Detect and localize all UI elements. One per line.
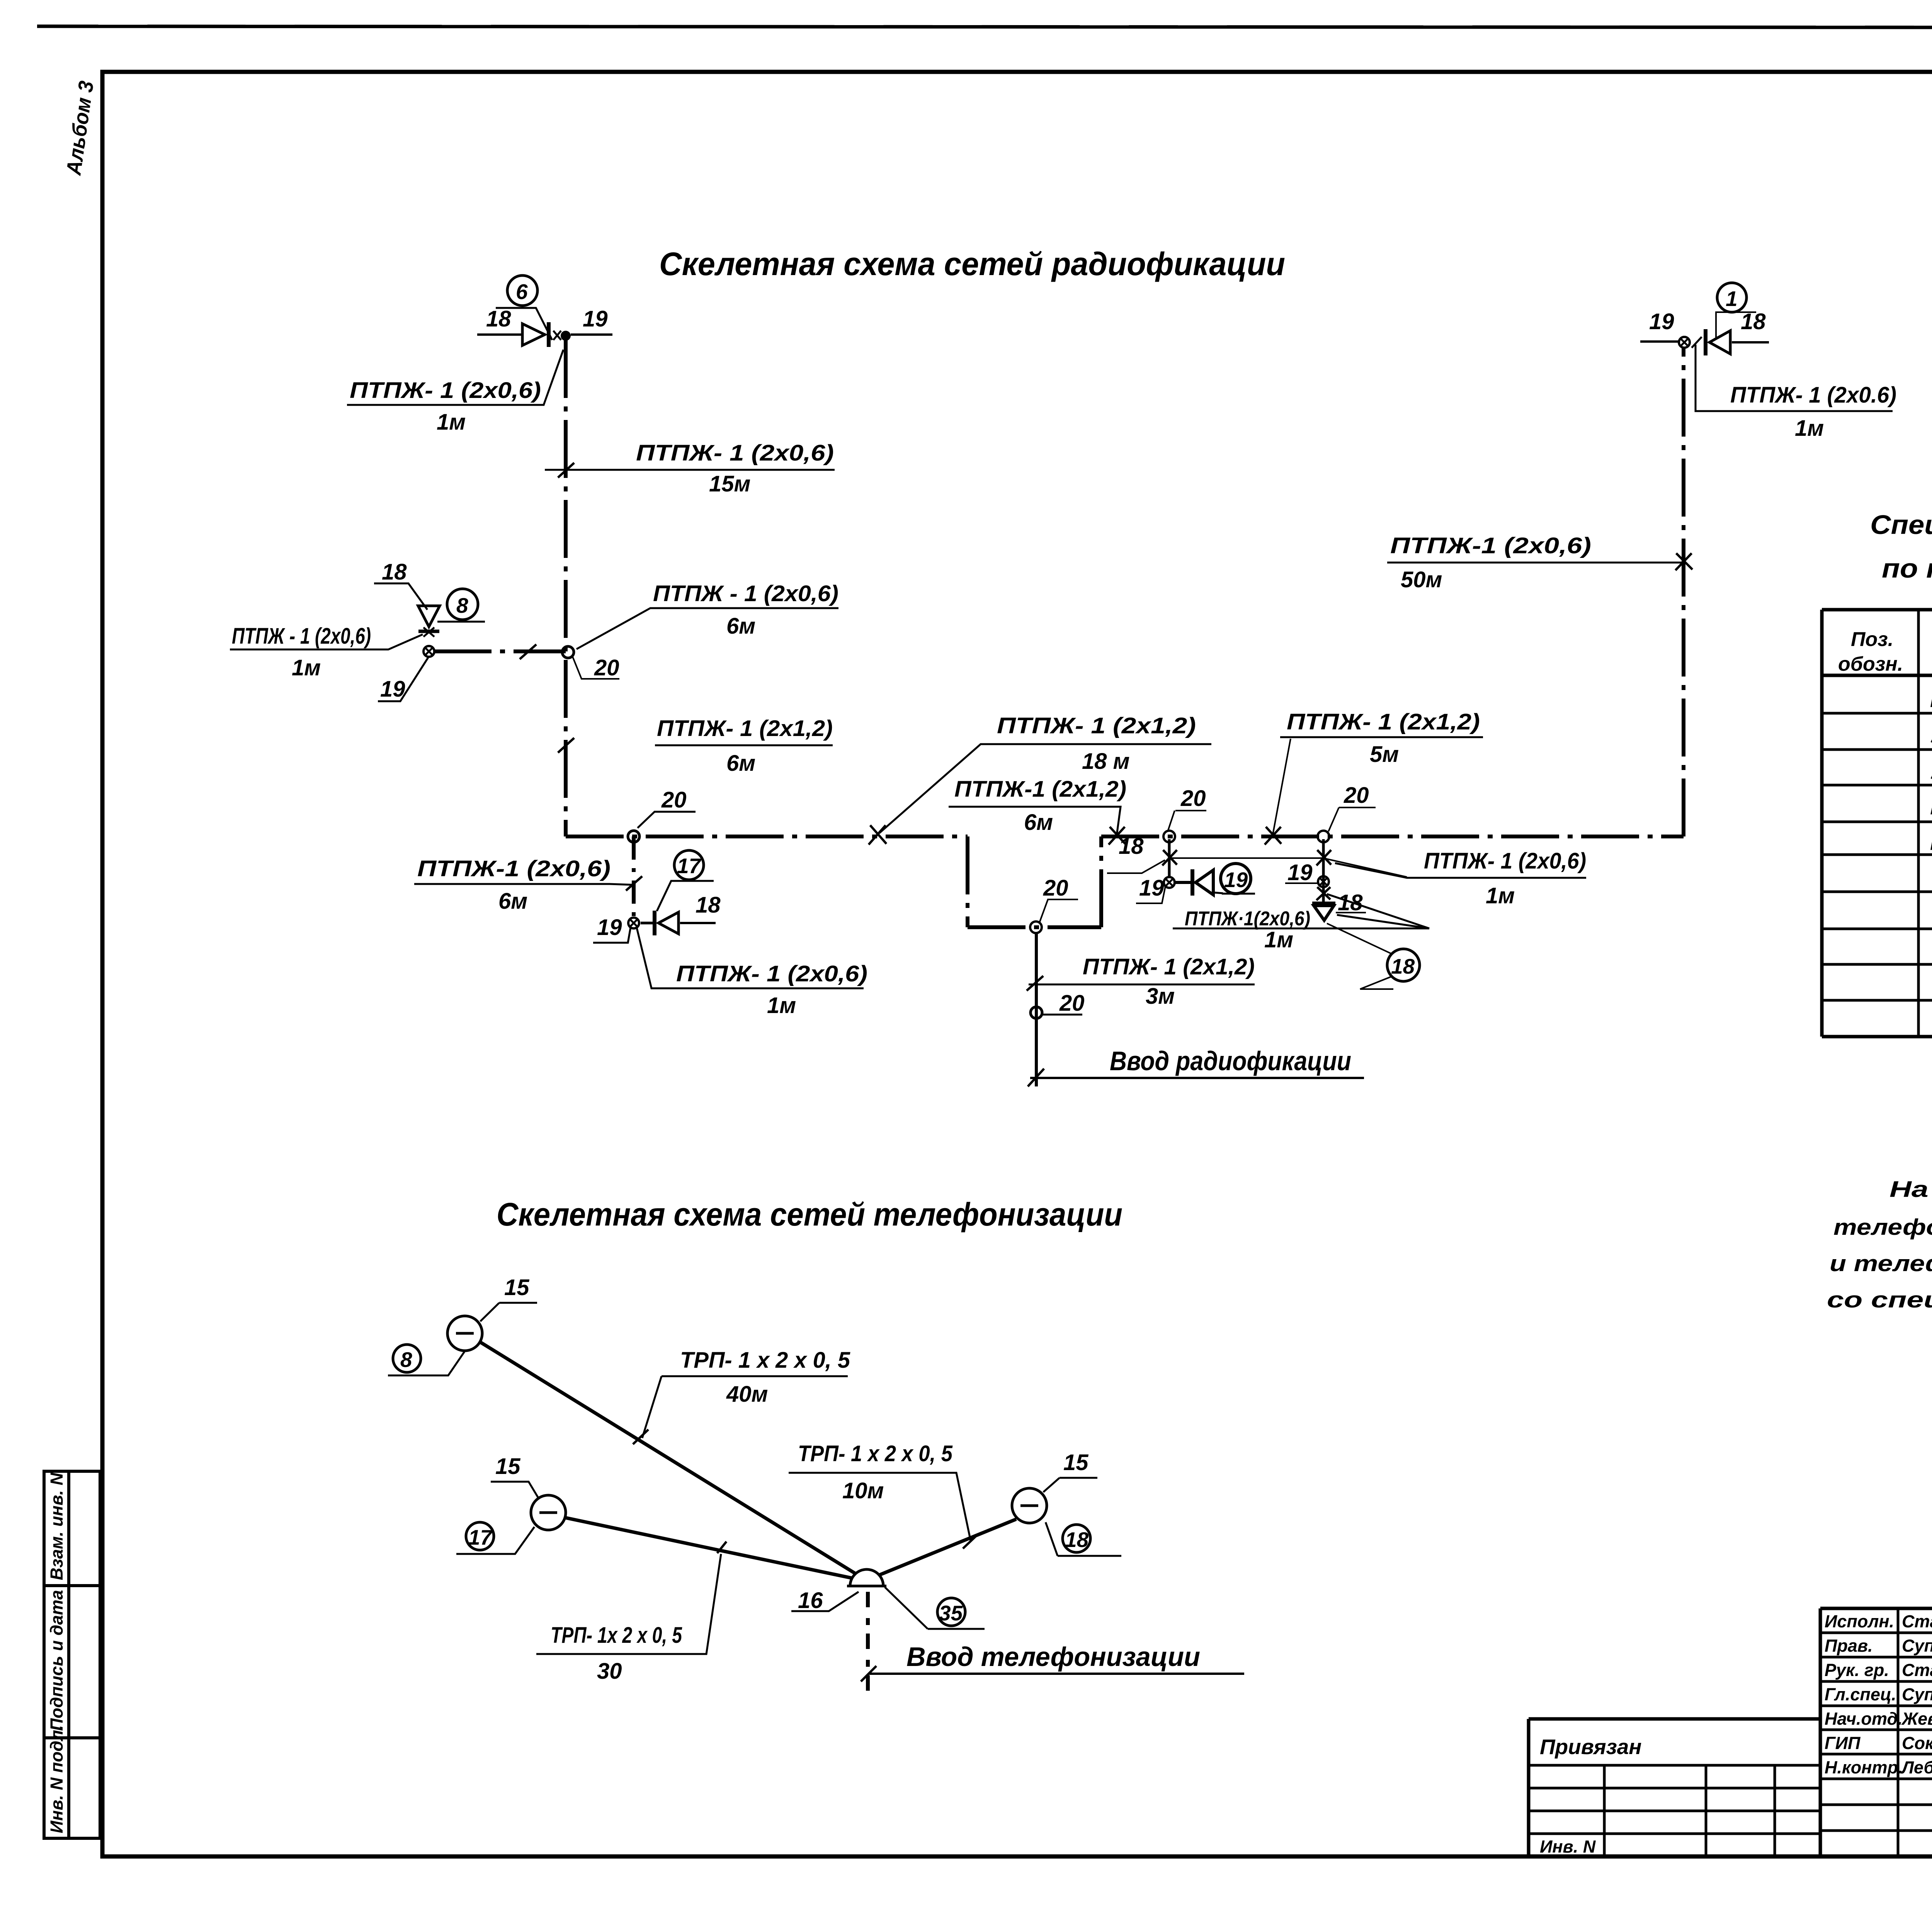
svg-text:8: 8 bbox=[456, 593, 468, 617]
junction 20 (sub-assembly 18) bbox=[1318, 783, 1376, 842]
svg-text:Прав.: Прав. bbox=[1825, 1636, 1873, 1656]
svg-text:6: 6 bbox=[516, 280, 528, 304]
tick on riser at 2x1,2 6м bbox=[558, 738, 574, 753]
svg-text:Инв. N подл.: Инв. N подл. bbox=[47, 1725, 66, 1833]
svg-text:Гл.спец.: Гл.спец. bbox=[1825, 1685, 1896, 1704]
svg-text:ПТПЖ-1 (2х0,6): ПТПЖ-1 (2х0,6) bbox=[417, 856, 611, 881]
wire: branch from node 8 bbox=[434, 649, 566, 653]
svg-text:Коробки универсальные: Коробки универсальные bbox=[1930, 687, 1932, 712]
spec row 3 bbox=[1930, 759, 1932, 785]
svg-text:ПТПЖ- 1 (2х1,2): ПТПЖ- 1 (2х1,2) bbox=[1083, 954, 1255, 979]
tick X right of junction bbox=[1692, 337, 1702, 348]
spec header Поз обозн bbox=[1838, 628, 1903, 675]
label 18 (sub 18) bbox=[1336, 890, 1366, 915]
junction circle-x node 1 bbox=[1679, 337, 1690, 348]
tick on riser at 15м bbox=[558, 463, 574, 478]
spec row 4 bbox=[1930, 794, 1932, 820]
svg-text:Провод ТРП- 1х2х0,5 ГОСТ 205: Провод ТРП- 1х2х0,5 ГОСТ 20575-75*Е bbox=[1930, 794, 1932, 819]
svg-text:ПТПЖ- 1 (2х0,6): ПТПЖ- 1 (2х0,6) bbox=[676, 961, 867, 986]
svg-text:Супрунова: Супрунова bbox=[1902, 1636, 1932, 1656]
position circle 18 (leadered) bbox=[1327, 923, 1420, 989]
svg-text:УК - 2Р: УК - 2Р bbox=[1930, 759, 1932, 784]
sheet top edge line bbox=[37, 26, 1932, 28]
signature rows text bbox=[1825, 1612, 1932, 1777]
svg-text:Подпись и дата: Подпись и дата bbox=[47, 1590, 66, 1731]
svg-text:Ввод телефонизации: Ввод телефонизации bbox=[906, 1642, 1200, 1672]
svg-text:1м: 1м bbox=[767, 993, 796, 1018]
svg-text:17: 17 bbox=[468, 1525, 493, 1549]
thin line 18 across bbox=[1169, 858, 1407, 877]
junction 20 (sub-assembly 19) bbox=[1163, 786, 1206, 842]
tick on branch node8 bbox=[520, 644, 536, 659]
spec row 2 bbox=[1930, 722, 1932, 749]
svg-text:Скелетная схема сетей телефони: Скелетная схема сетей телефонизации bbox=[497, 1196, 1122, 1232]
hub distribution box (half dome) bbox=[847, 1569, 886, 1586]
svg-text:ТРП- 1 х 2 х 0, 5: ТРП- 1 х 2 х 0, 5 bbox=[798, 1441, 953, 1466]
label 19 (node 17) bbox=[593, 915, 631, 943]
label 19 (sub 19) bbox=[1136, 875, 1165, 903]
position circle 8 bbox=[437, 589, 485, 622]
label ПТПЖ-1 (2x1,2) 3м bbox=[1029, 954, 1255, 1009]
label ПТПЖ-1 (2x1,2) 5м bbox=[1273, 709, 1483, 835]
svg-text:со спецификацией к плану: со спецификацией к плану - лист 13. bbox=[1827, 1287, 1932, 1312]
phone line B to hub bbox=[565, 1518, 855, 1579]
svg-text:18: 18 bbox=[1338, 890, 1363, 915]
label ПТПЖ-1 (2x1,2) 6м (center) bbox=[949, 777, 1126, 835]
loudspeaker node 8 (pointing down) bbox=[418, 606, 440, 637]
label ПТПЖ-1 (2x0,6) 1м (node 17) bbox=[637, 928, 867, 1018]
loudspeaker node 17 (pointing left) bbox=[641, 911, 716, 935]
junction 20 on U bottom bbox=[1030, 875, 1078, 933]
junction circle-x sub 18 bbox=[1318, 876, 1329, 887]
svg-text:15: 15 bbox=[1063, 1450, 1088, 1475]
loudspeaker sub 18 (pointing down) bbox=[1312, 903, 1335, 920]
svg-text:ПТПЖ- 1 (2х1,2): ПТПЖ- 1 (2х1,2) bbox=[1287, 709, 1480, 734]
position circle 35 (hub) bbox=[885, 1587, 985, 1629]
label 19 (node 8) bbox=[378, 658, 428, 702]
svg-text:6м: 6м bbox=[498, 889, 527, 914]
wire: telephone entrance drop (dashed) bbox=[866, 1592, 870, 1694]
svg-text:Исполн.: Исполн. bbox=[1825, 1612, 1894, 1631]
svg-text:3м: 3м bbox=[1146, 984, 1175, 1009]
svg-text:30: 30 bbox=[597, 1659, 622, 1684]
label ПТПЖ-1(2x0,6) 1м (sub pair) bbox=[1173, 894, 1429, 952]
svg-text:20: 20 bbox=[661, 787, 687, 813]
svg-text:8: 8 bbox=[400, 1348, 412, 1372]
label ПТПЖ-1 (2x0,6) 50м bbox=[1387, 533, 1682, 592]
svg-text:17: 17 bbox=[677, 854, 702, 878]
telephone entrance underline bbox=[869, 1673, 1244, 1675]
svg-text:ПТПЖ- 1 (2х0,6): ПТПЖ- 1 (2х0,6) bbox=[350, 378, 541, 403]
wire drop sub-assembly 19 bbox=[1168, 839, 1171, 878]
svg-text:1м: 1м bbox=[1264, 927, 1293, 952]
wire: horizontal trunk left segment bbox=[566, 835, 968, 838]
svg-text:19: 19 bbox=[597, 915, 622, 940]
svg-text:20: 20 bbox=[594, 655, 619, 680]
svg-text:Нач.отд.: Нач.отд. bbox=[1825, 1709, 1903, 1729]
label ПТПЖ-1 (2x0,6) 6м (node 17) bbox=[414, 856, 632, 914]
svg-text:Привязан: Привязан bbox=[1540, 1735, 1642, 1759]
svg-text:1м: 1м bbox=[1795, 416, 1824, 441]
stamp signature table bbox=[1820, 1608, 1932, 1856]
label 18 (sub 19) bbox=[1107, 834, 1165, 873]
svg-text:18: 18 bbox=[1741, 309, 1766, 334]
position circle 17 bbox=[657, 850, 714, 911]
wire drop to node 17 bbox=[632, 836, 636, 923]
tick on trunk (5м leader) bbox=[1265, 827, 1281, 845]
label 18 (node 8) bbox=[374, 559, 427, 610]
position circle 1 bbox=[1716, 283, 1756, 339]
svg-text:15: 15 bbox=[504, 1275, 529, 1300]
left attach block bbox=[1529, 1719, 1820, 1856]
svg-text:16: 16 bbox=[798, 1588, 823, 1613]
svg-text:18 м: 18 м bbox=[1082, 749, 1130, 774]
svg-text:ПТПЖ- 1 (2х1,2): ПТПЖ- 1 (2х1,2) bbox=[997, 713, 1196, 738]
loudspeaker sub 19 (pointing left) bbox=[1175, 869, 1213, 896]
loudspeaker node 1 (pointing left) bbox=[1706, 329, 1769, 355]
svg-text:20: 20 bbox=[1043, 875, 1068, 901]
svg-text:18: 18 bbox=[696, 892, 721, 918]
tick on trunk right of U bbox=[1109, 827, 1125, 845]
svg-text:по телефонизации и радиофикаци: по телефонизации и радиофикации bbox=[1882, 553, 1932, 583]
label ПТПЖ-1 (2x0.6) 1м (node 1) bbox=[1696, 345, 1896, 441]
junction dot node 6 bbox=[561, 331, 571, 341]
svg-text:ПТПЖ- 1 (2х0,6): ПТПЖ- 1 (2х0,6) bbox=[1424, 848, 1586, 874]
svg-text:35: 35 bbox=[939, 1601, 963, 1625]
svg-text:Супрунова: Супрунова bbox=[1902, 1685, 1932, 1704]
svg-text:19: 19 bbox=[1139, 875, 1164, 901]
svg-text:Скелетная схема сетей радиоф: Скелетная схема сетей радиофикации bbox=[659, 246, 1285, 282]
wire: radio service entrance drop bbox=[1035, 933, 1038, 1086]
svg-text:обозн.: обозн. bbox=[1838, 653, 1903, 675]
svg-text:Взам. инв. N: Взам. инв. N bbox=[47, 1472, 66, 1580]
left margin cells table bbox=[44, 1471, 100, 1838]
svg-text:40м: 40м bbox=[726, 1382, 768, 1407]
svg-text:19: 19 bbox=[1649, 309, 1674, 334]
svg-text:ПТПЖ- 1 (2х0.6): ПТПЖ- 1 (2х0.6) bbox=[1730, 382, 1896, 408]
position circle 18 (phone C) bbox=[1046, 1522, 1121, 1556]
svg-text:Поз.: Поз. bbox=[1851, 628, 1893, 651]
junction circle-x node 17 bbox=[628, 918, 639, 928]
svg-text:18: 18 bbox=[1119, 834, 1144, 859]
label 15 (phone A) bbox=[480, 1275, 537, 1321]
label 19 (node 6) bbox=[571, 306, 612, 335]
junction 20 at trunk corner bbox=[628, 787, 696, 842]
svg-text:Спецификация монтажных материа: Спецификация монтажных материалов bbox=[1870, 510, 1932, 540]
svg-text:Провод ГОСТ 10254-75*Е: Провод ГОСТ 10254-75*Е bbox=[1930, 830, 1932, 855]
tick X on right riser (50м) bbox=[1675, 553, 1692, 570]
label 16 (hub) bbox=[791, 1588, 859, 1613]
svg-text:5м: 5м bbox=[1370, 742, 1399, 767]
label ПТПЖ-1 (2x0,6) 1м (node 8) bbox=[230, 624, 423, 680]
svg-text:ГИП: ГИП bbox=[1825, 1733, 1861, 1753]
svg-text:УК- 2П: УК- 2П bbox=[1930, 722, 1932, 748]
position circle 17 (phone B) bbox=[456, 1522, 534, 1554]
tick X below circle-x sub18 bbox=[1316, 887, 1330, 900]
label ПТПЖ-1 (2x0,6) 6м (branch) bbox=[577, 581, 838, 649]
svg-text:Инв. N: Инв. N bbox=[1540, 1837, 1596, 1856]
svg-text:18: 18 bbox=[1391, 954, 1415, 978]
wire: vertical riser from node 6 bbox=[564, 340, 568, 836]
svg-text:20: 20 bbox=[1344, 783, 1369, 808]
label 15 (phone B) bbox=[491, 1454, 539, 1499]
telephone C bbox=[1012, 1488, 1047, 1523]
tick on node17 drop bbox=[626, 876, 642, 891]
svg-text:ПТПЖ- 1 (2х1,2): ПТПЖ- 1 (2х1,2) bbox=[657, 716, 833, 741]
svg-text:6м: 6м bbox=[726, 614, 755, 639]
label 19 (sub 18) bbox=[1285, 860, 1318, 885]
svg-text:ПТПЖ-1 (2х0,6): ПТПЖ-1 (2х0,6) bbox=[1390, 533, 1591, 558]
svg-text:19: 19 bbox=[583, 306, 608, 331]
telephone B bbox=[531, 1495, 566, 1530]
svg-text:6м: 6м bbox=[1024, 810, 1053, 835]
position circle 8 (phone A) bbox=[388, 1345, 465, 1375]
svg-text:15: 15 bbox=[495, 1454, 520, 1479]
label 19 (node 1) bbox=[1640, 309, 1679, 342]
label 15 (phone C) bbox=[1043, 1450, 1097, 1492]
phone line A to hub bbox=[479, 1341, 862, 1578]
loudspeaker at node 6 bbox=[522, 322, 561, 347]
svg-text:Старицына: Старицына bbox=[1902, 1660, 1932, 1680]
svg-text:19: 19 bbox=[1224, 868, 1248, 892]
svg-text:Лебская: Лебская bbox=[1901, 1758, 1932, 1777]
label ПТПЖ-1 (2x1,2) 18м bbox=[879, 713, 1211, 833]
svg-text:Соколовский: Соколовский bbox=[1902, 1733, 1932, 1753]
svg-text:20: 20 bbox=[1180, 786, 1206, 811]
tick X on drop sub18 (18 line) bbox=[1316, 850, 1331, 865]
spec table grid bbox=[1822, 610, 1932, 1037]
tick on trunk (18м leader) bbox=[869, 825, 886, 845]
svg-text:1м: 1м bbox=[437, 410, 466, 435]
junction circle-x sub 19 bbox=[1164, 877, 1175, 888]
svg-text:Рук. гр.: Рук. гр. bbox=[1825, 1660, 1889, 1680]
svg-text:ПТПЖ - 1 (2х0,6): ПТПЖ - 1 (2х0,6) bbox=[653, 581, 838, 606]
label ТРП-1x2x0,5 30 bbox=[536, 1554, 721, 1684]
label 18 (node 17) bbox=[696, 892, 721, 918]
radio entrance underline and tick bbox=[1030, 1077, 1364, 1079]
svg-text:Жевнеров: Жевнеров bbox=[1901, 1709, 1932, 1729]
junction circle-x node 8 bbox=[423, 646, 434, 657]
label ПТПЖ-1 (2x0,6) 1м (right big) bbox=[1335, 848, 1586, 908]
svg-text:На скелетных схемах сетей: На скелетных схемах сетей радиофикации и bbox=[1889, 1177, 1932, 1202]
wire drop sub-assembly 18 bbox=[1322, 839, 1325, 904]
junction 20 on drop bbox=[1031, 991, 1085, 1018]
label ТРП-1x2x0,5 10м bbox=[789, 1441, 971, 1541]
svg-text:20: 20 bbox=[1059, 991, 1085, 1016]
svg-text:1: 1 bbox=[1726, 287, 1738, 311]
wire: horizontal trunk right segment bbox=[1101, 835, 1684, 838]
svg-text:ПТПЖ-1 (2х1,2): ПТПЖ-1 (2х1,2) bbox=[954, 777, 1126, 802]
junction 20 on riser bbox=[562, 646, 619, 680]
note paragraph bbox=[1827, 1177, 1932, 1312]
svg-text:ТРП- 1 х 2 х 0, 5: ТРП- 1 х 2 х 0, 5 bbox=[680, 1348, 850, 1373]
svg-text:телефонизации позиции коро: телефонизации позиции коробок, громкогов… bbox=[1833, 1215, 1932, 1240]
wire: U-jog down bbox=[968, 836, 1101, 927]
arrow tick on line B bbox=[717, 1542, 726, 1553]
svg-text:и телефонных аппаратов ук: и телефонных аппаратов указаны в соответ… bbox=[1830, 1251, 1932, 1276]
label ПТПЖ-1 (2x1,2) 6м (riser) bbox=[655, 716, 833, 776]
label ПТПЖ-1 (2x0,6) 1м (node 6 drop) bbox=[347, 350, 563, 435]
phone line C to hub bbox=[874, 1519, 1016, 1577]
label ПТПЖ-1 (2x0,6) 15м bbox=[545, 440, 835, 496]
svg-text:Н.контр.: Н.контр. bbox=[1825, 1758, 1903, 1777]
svg-text:18: 18 bbox=[382, 559, 407, 585]
svg-text:10м: 10м bbox=[842, 1478, 884, 1503]
svg-text:18: 18 bbox=[486, 306, 511, 331]
svg-text:50м: 50м bbox=[1401, 567, 1442, 592]
svg-text:ПТПЖ - 1 (2х0,6): ПТПЖ - 1 (2х0,6) bbox=[232, 624, 371, 649]
position circle 6 bbox=[496, 275, 552, 340]
svg-text:18: 18 bbox=[1065, 1528, 1089, 1552]
tick X on drop (18) bbox=[1162, 850, 1177, 865]
label 18 (node 6) bbox=[477, 306, 522, 335]
svg-text:ПТПЖ·1(2х0,6): ПТПЖ·1(2х0,6) bbox=[1185, 908, 1310, 930]
svg-text:ТРП- 1х 2 х 0, 5: ТРП- 1х 2 х 0, 5 bbox=[551, 1623, 682, 1648]
svg-text:15м: 15м bbox=[709, 471, 750, 496]
svg-text:Старицына: Старицына bbox=[1902, 1612, 1932, 1631]
svg-text:19: 19 bbox=[1287, 860, 1313, 885]
tick on line C bbox=[963, 1534, 978, 1549]
svg-text:6м: 6м bbox=[726, 751, 755, 776]
svg-text:1м: 1м bbox=[1486, 883, 1515, 908]
label ТРП-1x2x0,5 40м bbox=[642, 1348, 850, 1438]
wire: right riser to node 1 bbox=[1682, 347, 1685, 836]
svg-text:ПТПЖ- 1 (2х0,6): ПТПЖ- 1 (2х0,6) bbox=[636, 440, 834, 466]
position circle 19 bbox=[1213, 864, 1255, 894]
svg-text:1м: 1м bbox=[292, 655, 321, 680]
telephone A bbox=[447, 1316, 482, 1351]
svg-text:Ввод радиофикации: Ввод радиофикации bbox=[1110, 1046, 1351, 1076]
tick on line A bbox=[633, 1430, 648, 1444]
tick on drop bbox=[1027, 976, 1043, 991]
